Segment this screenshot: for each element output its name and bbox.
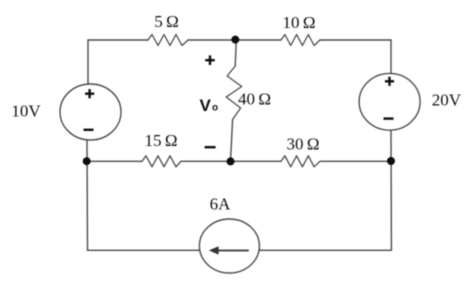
wire bottom-rail left segment bbox=[88, 249, 200, 251]
minus sign V1 bbox=[84, 129, 94, 131]
node dot top (between 5ohm and 10ohm) bbox=[231, 36, 239, 44]
svg-text:5 Ω: 5 Ω bbox=[154, 12, 179, 31]
node dot mid-center (bottom of 40ohm) bbox=[227, 157, 235, 165]
wire left-rail upper bbox=[87, 40, 89, 84]
wire right-rail lower bbox=[390, 130, 392, 250]
resistor R 30ohm zigzag bbox=[281, 156, 320, 167]
svg-text:40 Ω: 40 Ω bbox=[238, 89, 271, 108]
plus sign Vo bbox=[205, 55, 215, 65]
minus sign Vo bbox=[205, 146, 216, 148]
current source I1 6A circle bbox=[199, 219, 259, 273]
resistor R 10ohm zigzag bbox=[281, 35, 320, 46]
wire mid-rail left segment bbox=[87, 160, 142, 162]
resistor R 15ohm zigzag bbox=[142, 156, 181, 167]
svg-text:6A: 6A bbox=[210, 195, 232, 214]
wire left-rail lower bbox=[86, 140, 89, 250]
resistor R 40ohm zigzag bbox=[226, 66, 242, 120]
wire top-mid segment bbox=[188, 39, 281, 41]
node dot mid-right bbox=[387, 157, 395, 165]
wire top-right segment bbox=[320, 39, 391, 41]
svg-text:o: o bbox=[212, 103, 218, 114]
voltage source V2 20V circle bbox=[359, 73, 420, 130]
wire mid-rail right segment bbox=[320, 160, 391, 162]
plus sign V1 bbox=[85, 89, 94, 98]
svg-text:30 Ω: 30 Ω bbox=[286, 135, 319, 154]
plus sign V2 bbox=[385, 77, 394, 86]
wire top-left segment bbox=[88, 39, 148, 41]
wire 40ohm branch lower bbox=[231, 120, 233, 162]
resistor R 5ohm zigzag bbox=[148, 35, 188, 46]
current source I1 arrow bbox=[209, 246, 249, 254]
voltage source V1 10V circle bbox=[60, 84, 121, 140]
svg-text:15 Ω: 15 Ω bbox=[144, 131, 177, 150]
wire right-rail upper bbox=[390, 40, 392, 73]
svg-text:V: V bbox=[200, 96, 212, 115]
svg-text:10 Ω: 10 Ω bbox=[282, 13, 315, 32]
svg-text:10V: 10V bbox=[11, 102, 41, 121]
wire mid-rail center segment bbox=[181, 160, 281, 162]
node dot mid-left bbox=[83, 157, 91, 165]
wire bottom-rail right segment bbox=[259, 249, 391, 251]
minus sign V2 bbox=[384, 117, 394, 119]
svg-text:20V: 20V bbox=[432, 91, 462, 110]
polarity marks bbox=[84, 55, 395, 147]
wire 40ohm branch upper bbox=[235, 40, 236, 66]
